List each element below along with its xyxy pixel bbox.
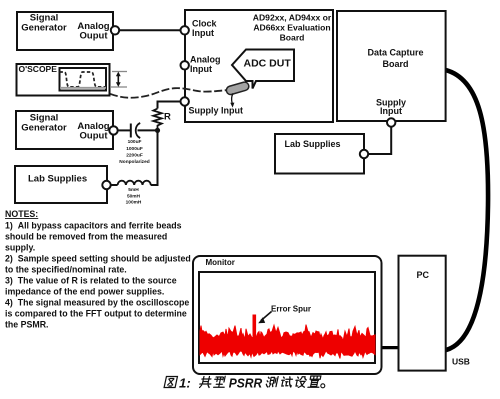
svg-text:Generator: Generator [21,22,67,33]
svg-text:impedance of the end power sup: impedance of the end power supplies. [5,287,164,297]
svg-text:Board: Board [382,59,408,69]
svg-text:is compared to the FFT output: is compared to the FFT output to determi… [5,309,187,319]
svg-text:Input: Input [380,106,402,116]
svg-text:USB: USB [452,357,470,367]
svg-text:100uF: 100uF [128,139,142,145]
svg-text:Ouput: Ouput [80,31,109,42]
svg-text:PC: PC [417,270,430,280]
svg-text:2) Sample speed setting shoul: 2) Sample speed setting should be adjust… [5,254,191,264]
svg-text:supply.: supply. [5,243,35,253]
svg-text:AD92xx, AD94xx or: AD92xx, AD94xx or [253,13,332,23]
svg-text:R: R [164,112,171,123]
svg-text:Ouput: Ouput [80,131,109,142]
svg-text:Data Capture: Data Capture [367,48,423,58]
svg-text:1000uF: 1000uF [126,146,143,152]
svg-text:Monitor: Monitor [206,258,235,267]
svg-text:to the specified/nominal rate.: to the specified/nominal rate. [5,265,127,275]
svg-text:Input: Input [192,28,214,38]
svg-text:50mH: 50mH [127,193,141,199]
svg-text:4) The signal measured by the: 4) The signal measured by the oscillosco… [5,298,189,308]
svg-text:1:: 1: [179,375,191,390]
svg-text:the PSMR.: the PSMR. [5,320,49,330]
svg-text:Generator: Generator [21,122,67,133]
svg-text:PSRR: PSRR [229,375,263,390]
svg-text:Analog: Analog [190,54,221,64]
svg-text:2200uF: 2200uF [126,153,143,159]
svg-text:should be removed from the mea: should be removed from the measured [5,232,167,242]
svg-text:5mH: 5mH [128,187,139,193]
svg-text:100mH: 100mH [126,200,142,206]
svg-text:AD66xx Evaluation: AD66xx Evaluation [253,23,330,33]
svg-text:Input: Input [190,64,212,74]
svg-text:Lab Supplies: Lab Supplies [285,139,341,149]
svg-text:Lab Supplies: Lab Supplies [28,173,87,184]
svg-text:Supply Input: Supply Input [189,105,244,115]
svg-text:Nonpolarized: Nonpolarized [119,159,149,165]
svg-text:3) The value of R is related: 3) The value of R is related to the sour… [5,276,177,286]
svg-text:Clock: Clock [192,19,218,29]
svg-text:NOTES:: NOTES: [5,209,38,219]
svg-text:O'SCOPE: O'SCOPE [19,64,58,74]
svg-text:Board: Board [280,33,305,43]
svg-text:Error Spur: Error Spur [271,304,311,313]
svg-text:ADC DUT: ADC DUT [244,58,292,70]
svg-text:1) All bypass capacitors and: 1) All bypass capacitors and ferrite bea… [5,221,182,231]
